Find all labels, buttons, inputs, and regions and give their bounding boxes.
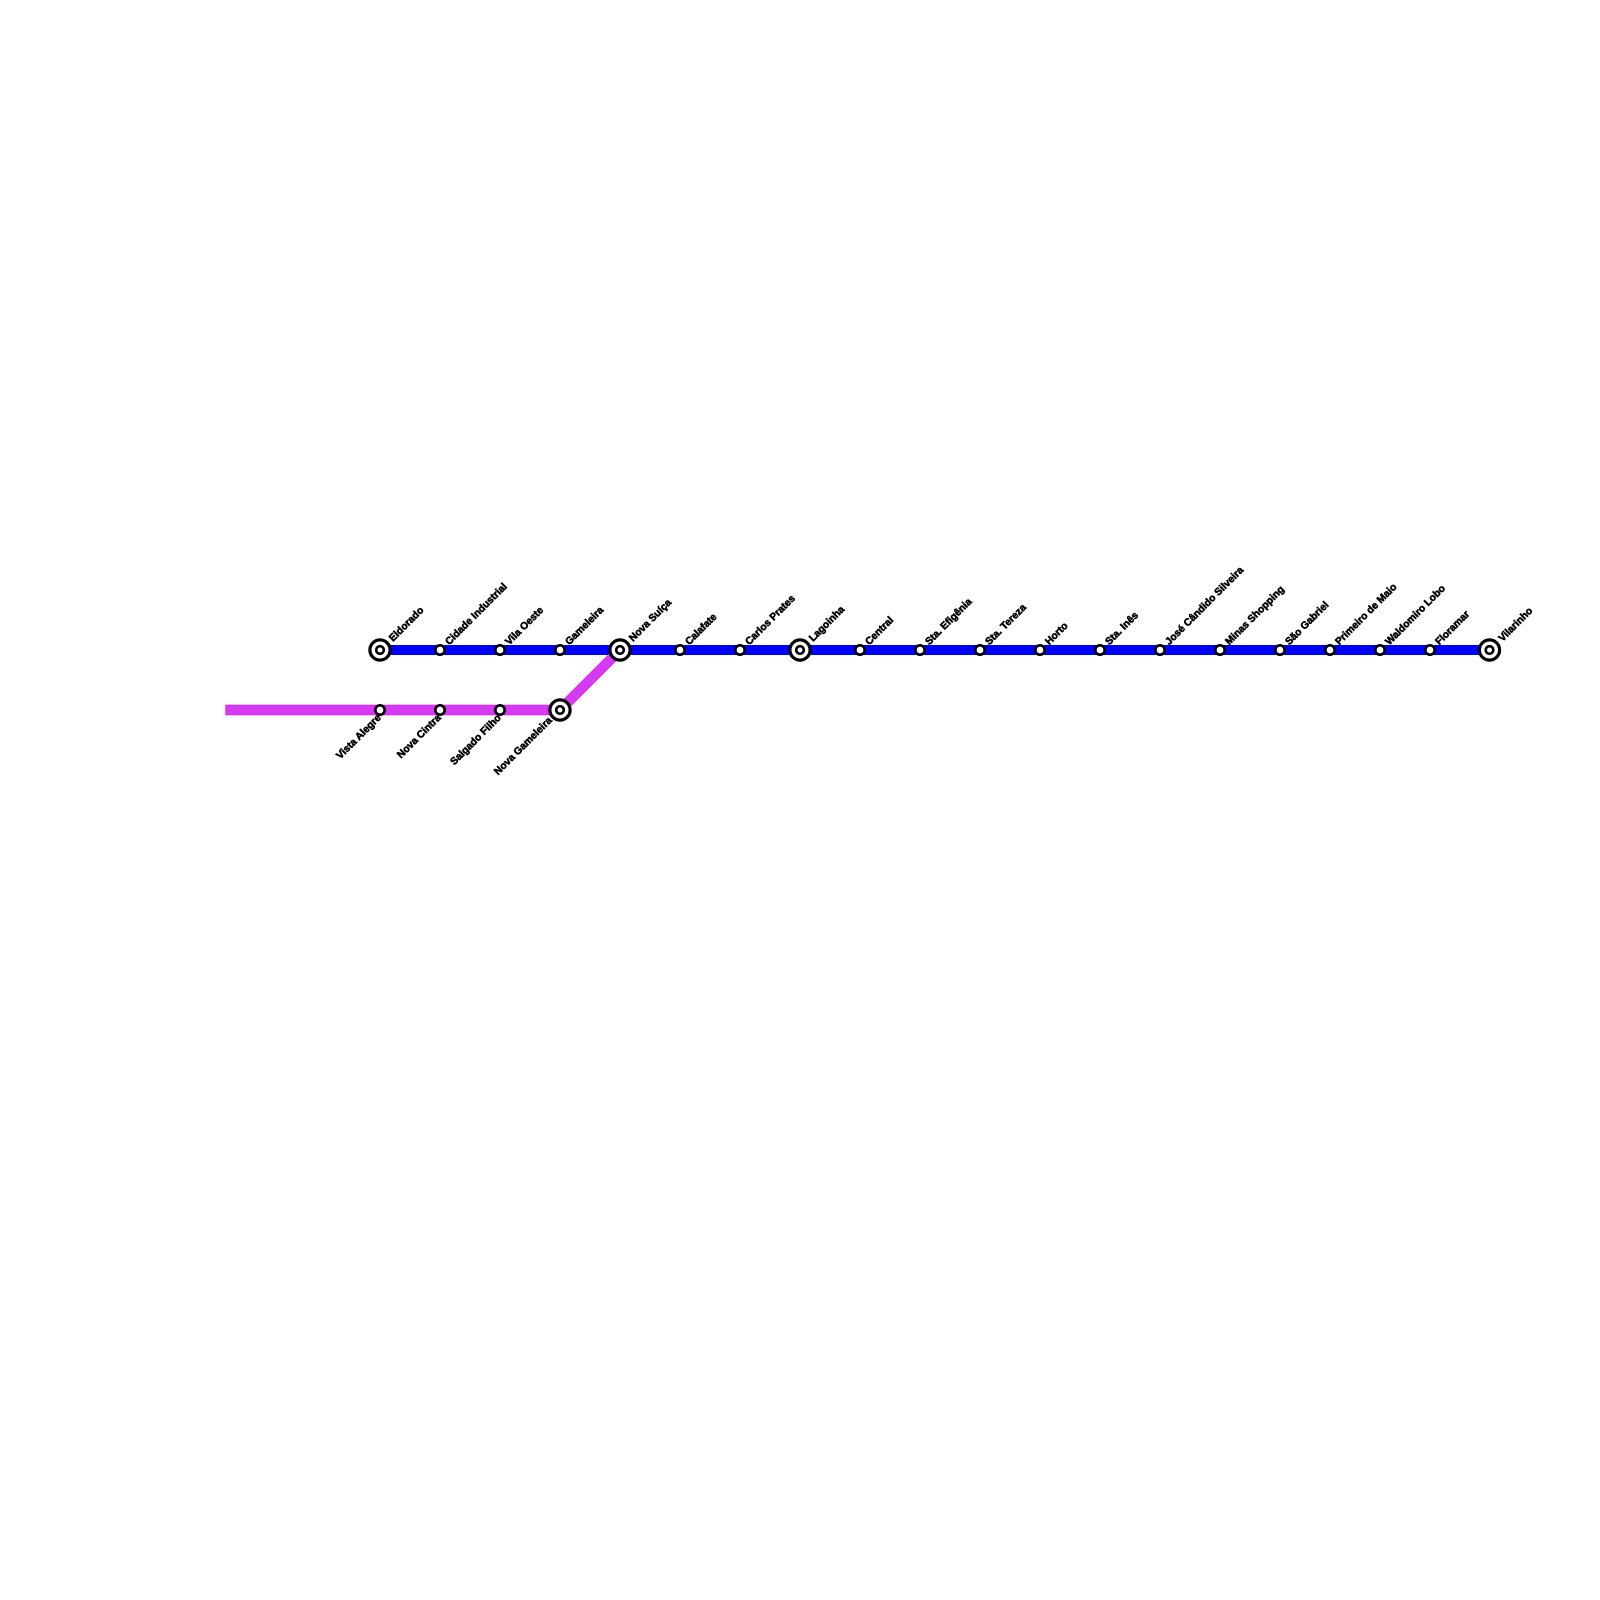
node Salgado Filho — [495, 705, 504, 714]
node Vilarinho (interchange) — [1479, 640, 1499, 660]
node Sta. Ines — [1095, 645, 1104, 654]
node Vila Oeste — [495, 645, 504, 654]
node Vista Alegre — [375, 705, 384, 714]
node Calafate — [675, 645, 684, 654]
wire: pink metro line 2 violet core — [226, 650, 620, 710]
node Nova Gameleira (interchange) — [550, 700, 570, 720]
node Nova Cintra — [435, 705, 444, 714]
node Jose Candido Silveira — [1155, 645, 1164, 654]
node Sao Gabriel — [1275, 645, 1284, 654]
node Central — [855, 645, 864, 654]
node Waldomiro Lobo — [1375, 645, 1384, 654]
node Nova Suica (interchange) — [610, 640, 630, 660]
node Lagoinha (interchange) — [790, 640, 810, 660]
node Horto — [1035, 645, 1044, 654]
node Eldorado (interchange) — [370, 640, 390, 660]
node Gameleira — [555, 645, 564, 654]
node Minas Shopping — [1215, 645, 1224, 654]
node Floramar — [1425, 645, 1434, 654]
wire: blue metro line 1 Eldorado-Vilarinho — [380, 645, 1490, 655]
node Carlos Prates — [735, 645, 744, 654]
wire: pink metro line 2 magenta edge — [225, 650, 620, 710]
node Sta. Efigenia — [915, 645, 924, 654]
node Sta. Tereza — [975, 645, 984, 654]
node Primeiro de Maio — [1325, 645, 1334, 654]
node Cidade Industrial — [435, 645, 444, 654]
